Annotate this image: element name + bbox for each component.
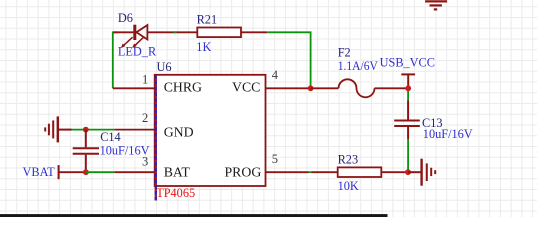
resistor R21 — [197, 28, 241, 38]
wire: green joint left of R21 — [174, 31, 177, 33]
junction node at VCC pin — [308, 85, 314, 91]
wire: C13 down to PROG node (green) — [407, 139, 409, 170]
pin 5 stub — [266, 171, 309, 173]
pin 2 stub — [114, 129, 155, 131]
pin 1 stub — [113, 87, 155, 89]
svg-text:R23: R23 — [338, 152, 359, 166]
svg-text:VCC: VCC — [232, 80, 260, 95]
svg-text:TP4065: TP4065 — [156, 186, 195, 200]
svg-text:2: 2 — [142, 111, 148, 125]
ground (top) — [425, 1, 447, 9]
wire: R21 right red — [241, 31, 267, 33]
svg-text:1: 1 — [142, 73, 148, 87]
ground (right, sideways) — [408, 159, 435, 186]
pin 4 stub — [266, 87, 311, 89]
svg-text:PROG: PROG — [225, 165, 262, 180]
wire: VBAT to junction — [59, 171, 86, 173]
svg-text:BAT: BAT — [164, 165, 191, 180]
wire: junction to pin3 (green) — [86, 171, 114, 173]
svg-text:LED_R: LED_R — [118, 45, 157, 59]
svg-text:10uF/16V: 10uF/16V — [423, 127, 473, 141]
IC U6 body — [155, 75, 266, 186]
svg-text:R21: R21 — [197, 13, 218, 27]
wire: green from R21 over and down to VCC node — [267, 32, 310, 86]
wire: green joint on PROG wire — [309, 171, 312, 173]
IC U6 left edge dashed highlight — [155, 75, 157, 201]
svg-text:1.1A/6V: 1.1A/6V — [338, 59, 378, 73]
port VBAT bar — [58, 165, 60, 179]
svg-text:VBAT: VBAT — [23, 165, 56, 179]
capacitor C14 — [73, 130, 99, 173]
svg-text:4: 4 — [272, 68, 279, 82]
ground (left, sideways) — [45, 116, 71, 142]
wire: to R23 — [312, 171, 338, 173]
svg-text:C14: C14 — [100, 130, 121, 144]
power port USB_VCC — [401, 74, 415, 88]
svg-text:F2: F2 — [338, 46, 351, 60]
svg-text:10uF/16V: 10uF/16V — [100, 144, 150, 158]
junction node at PROG/R23/C13 — [405, 169, 411, 175]
junction node at BAT/C14/VBAT — [83, 169, 89, 175]
svg-text:5: 5 — [272, 152, 278, 166]
junction node at GND/C14 — [83, 127, 89, 133]
diode D6 — [114, 25, 198, 40]
svg-text:D6: D6 — [118, 11, 133, 25]
diode D6 emission arrows — [121, 37, 144, 48]
svg-text:CHRG: CHRG — [164, 80, 202, 95]
wire: ground to pin2 (green) — [72, 129, 115, 131]
wire: USB node down to C13 (green) — [407, 91, 409, 101]
wire: D6 cathode elbow down to pin1 (green) — [113, 32, 118, 88]
capacitor C13 — [394, 101, 420, 140]
wire: R23 to node — [381, 171, 408, 173]
resistor R23 — [338, 167, 382, 177]
svg-text:1K: 1K — [196, 40, 211, 54]
svg-text:GND: GND — [164, 125, 194, 140]
wire: fuse to USB node — [375, 87, 409, 89]
wire: VCC node to fuse — [311, 87, 339, 89]
svg-text:U6: U6 — [157, 60, 172, 74]
svg-text:10K: 10K — [338, 179, 359, 193]
pin 3 stub — [114, 171, 155, 173]
bottom black bar — [0, 214, 388, 217]
svg-text:USB_VCC: USB_VCC — [380, 55, 435, 69]
junction node at USB_VCC — [405, 85, 411, 91]
fuse F2 — [339, 79, 375, 97]
